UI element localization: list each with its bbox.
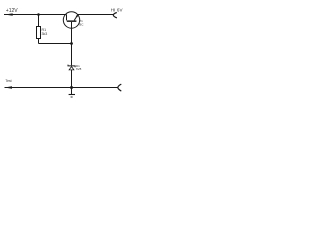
svg-text:6V8: 6V8	[76, 67, 82, 71]
svg-text:Test: Test	[5, 79, 11, 83]
svg-text:+12V: +12V	[6, 8, 18, 14]
svg-text:3k3: 3k3	[42, 32, 48, 36]
svg-text:HI 6V: HI 6V	[111, 7, 123, 12]
